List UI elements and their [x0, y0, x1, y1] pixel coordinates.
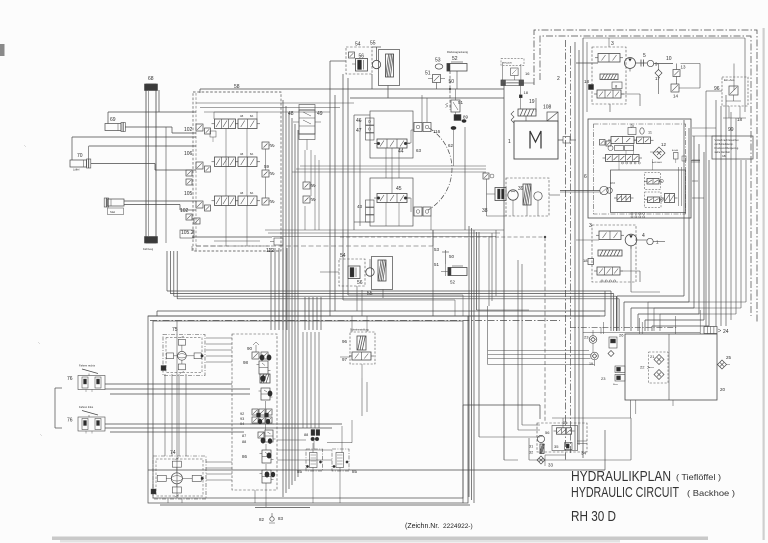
- svg-text:Löffel: Löffel: [73, 168, 80, 172]
- svg-text:38: 38: [482, 208, 488, 214]
- label 58: [234, 84, 240, 90]
- svg-text:51: 51: [458, 100, 464, 105]
- label 105: [184, 191, 193, 197]
- wire: [583, 331, 700, 333]
- svg-text:59: 59: [264, 164, 270, 169]
- label 4: [642, 233, 645, 239]
- cooler spool 35: [554, 428, 575, 434]
- svg-text:47: 47: [356, 128, 362, 134]
- label 50: [449, 79, 455, 85]
- labels 87-88: [242, 434, 246, 444]
- label 52b: [450, 280, 456, 285]
- suction 23 group: [584, 330, 597, 343]
- label M: [530, 131, 541, 149]
- label Fahren-l: [79, 405, 94, 409]
- label 45: [396, 186, 402, 192]
- label 38: [482, 208, 488, 214]
- svg-text:51: 51: [434, 262, 440, 267]
- wire: [343, 74, 348, 300]
- relief 59d: [303, 182, 316, 203]
- wire: [593, 342, 611, 366]
- joystick 74: [151, 456, 206, 499]
- label 96c: [342, 339, 348, 344]
- wire: [212, 349, 232, 351]
- svg-text:24: 24: [723, 329, 729, 335]
- svg-text:89: 89: [463, 115, 469, 120]
- label 102b: [180, 208, 200, 224]
- wire corner net: [489, 230, 496, 306]
- label 49: [317, 111, 323, 117]
- wire: [160, 504, 470, 506]
- wire: [576, 63, 700, 94]
- label 10: [666, 56, 672, 62]
- label 52: [452, 56, 458, 62]
- paper shadow right edge: [763, 28, 765, 540]
- label 29: [720, 387, 726, 392]
- title line 2: [571, 484, 735, 501]
- valve section 1 spools: [212, 119, 261, 129]
- svg-text:102: 102: [180, 208, 189, 214]
- svg-text:(Zeichn.Nr.: (Zeichn.Nr.: [405, 523, 439, 530]
- wire: [314, 420, 352, 449]
- valve 14: [671, 84, 679, 99]
- wire: [503, 83, 505, 460]
- svg-text:56: 56: [357, 280, 363, 286]
- note box 99: [712, 136, 753, 159]
- svg-text:82: 82: [259, 517, 265, 522]
- frame dash-dot outer: [534, 30, 757, 322]
- suction 19 group: [589, 352, 598, 366]
- svg-text:11: 11: [648, 131, 652, 135]
- wire: [165, 127, 167, 243]
- svg-text:93: 93: [240, 417, 244, 421]
- wire fan right: [684, 120, 709, 326]
- svg-text:112: 112: [266, 248, 274, 254]
- label unterwagen: [143, 248, 154, 251]
- valve 86: [242, 450, 274, 463]
- wire: [487, 179, 539, 216]
- label 1: [508, 139, 511, 145]
- wire: [105, 424, 342, 432]
- joystick 75: [161, 335, 205, 376]
- valve section 2 extra: [186, 170, 192, 185]
- svg-text:BA: BA: [250, 153, 254, 156]
- label 33: [548, 463, 554, 468]
- wire: [716, 95, 726, 326]
- label 44: [398, 149, 404, 155]
- title line 3: [571, 509, 616, 525]
- svg-text:83: 83: [278, 516, 284, 521]
- wire: [148, 311, 605, 316]
- wire: [343, 295, 463, 300]
- wire: [214, 112, 258, 119]
- gauge 53 ellipse: [435, 64, 443, 69]
- pump group 3 dashed box: [592, 47, 626, 104]
- stiel label box: [108, 208, 124, 215]
- block6 right valve: [662, 194, 678, 203]
- pump 3 circle: [625, 58, 636, 72]
- switch bar 16: [501, 80, 524, 86]
- svg-text:31: 31: [529, 445, 533, 449]
- wire: [463, 405, 540, 503]
- title line 1: [571, 468, 721, 485]
- wire horizontal bundle mid: [292, 166, 486, 172]
- pressure switch 16 dashed box: [501, 59, 524, 66]
- svg-text:106: 106: [184, 151, 193, 157]
- diamond 33: [537, 456, 545, 464]
- label 82: [259, 517, 265, 522]
- cooler dashed box: [537, 423, 587, 452]
- svg-text:AB: AB: [240, 115, 244, 118]
- label 18b: [737, 117, 743, 122]
- wire dash-dot: [150, 320, 560, 322]
- block6 spool rowA: [608, 137, 654, 144]
- pump2 hatch: [598, 250, 622, 256]
- label Fahren-r: [79, 364, 96, 368]
- label 6: [584, 174, 587, 180]
- wire: [706, 91, 746, 118]
- valve 85b inner: [333, 426, 348, 483]
- filter 22 diamond: [640, 365, 664, 380]
- cylinder 68: [145, 84, 158, 243]
- wire: [422, 95, 427, 123]
- svg-text:14: 14: [673, 94, 679, 99]
- valve 13: [673, 65, 686, 77]
- svg-text:98: 98: [243, 360, 249, 365]
- wire: [313, 483, 340, 503]
- svg-text:3: 3: [611, 41, 614, 47]
- svg-text:58: 58: [234, 84, 240, 90]
- label 70: [77, 153, 83, 159]
- label 97: [342, 357, 348, 362]
- block6 pilot valve b dashed: [645, 192, 664, 208]
- label 105-2: [180, 230, 194, 238]
- wire rungs 75: [206, 338, 232, 362]
- tank inner line: [668, 334, 670, 400]
- gear pump 38 block: [495, 188, 506, 201]
- valve 8 box: [612, 82, 622, 89]
- svg-text:16: 16: [525, 71, 530, 76]
- wire: [407, 198, 431, 230]
- svg-text:Fahren rechts: Fahren rechts: [79, 364, 96, 368]
- wire: [199, 89, 201, 93]
- valve block 58 dashed box: [193, 92, 281, 251]
- label sect3: [240, 192, 254, 195]
- block6 left items: [600, 140, 634, 151]
- valve row 91-94: [250, 409, 274, 424]
- control block 6 outer: [588, 119, 691, 218]
- pump small circle: [534, 192, 542, 200]
- rotary link 116 bottom: [414, 207, 431, 216]
- svg-text:AB: AB: [240, 153, 244, 156]
- svg-text:22: 22: [640, 365, 645, 370]
- valve 85a inner: [306, 443, 321, 483]
- label 63: [416, 148, 422, 153]
- svg-text:32: 32: [529, 451, 533, 455]
- valve u2: [260, 470, 274, 483]
- gauge 7 circle: [647, 238, 659, 244]
- valve 90 pair: [252, 342, 268, 359]
- svg-text:116: 116: [433, 129, 441, 134]
- pilot block dashed box: [232, 334, 277, 490]
- wire: [167, 291, 619, 299]
- wire dashdot tank: [570, 327, 678, 329]
- valve 85a dashed box: [306, 449, 323, 471]
- wire: [359, 120, 361, 226]
- wire: [325, 435, 331, 437]
- svg-text:Fahrzeug: Fahrzeug: [143, 248, 154, 251]
- svg-text:85: 85: [297, 469, 303, 474]
- label 32: [529, 451, 533, 455]
- svg-text:18: 18: [583, 258, 588, 263]
- svg-text:36: 36: [563, 421, 567, 425]
- valve 18 small: [584, 79, 594, 90]
- wire: [608, 38, 610, 47]
- label sect2: [240, 153, 254, 156]
- accumulator 52b: [448, 266, 467, 276]
- svg-text:1: 1: [508, 139, 511, 145]
- valve 54 small: [349, 52, 355, 58]
- wire: [192, 236, 272, 238]
- wire: [648, 302, 660, 331]
- filter 38 hatch: [523, 184, 531, 205]
- label 56c: [545, 430, 550, 435]
- svg-text:A1-A4: A1-A4: [672, 149, 679, 152]
- label 55: [370, 41, 376, 47]
- margin mark: [24, 145, 42, 436]
- svg-text:75: 75: [172, 327, 178, 333]
- drawing number: [405, 523, 473, 530]
- valve 18c: [583, 258, 594, 265]
- pump 3 hatch: [600, 74, 618, 80]
- valve section 2 spools: [212, 157, 261, 167]
- filter 21 diamond: [650, 354, 664, 365]
- cylinder 70: [70, 159, 91, 168]
- wire: [487, 306, 489, 365]
- control block 6 inner dashdot: [594, 124, 686, 214]
- svg-text:87: 87: [242, 434, 246, 438]
- valve u1: [259, 388, 273, 400]
- wire: [320, 272, 383, 298]
- wire horizontal bundle low: [265, 230, 504, 237]
- label 98: [243, 360, 249, 365]
- svg-text:102: 102: [184, 127, 193, 133]
- label 74: [170, 450, 176, 456]
- wire: [176, 321, 178, 498]
- wire bundle 5: [469, 226, 479, 503]
- svg-text:105.2: 105.2: [181, 230, 194, 236]
- svg-text:Ein-Aus: Ein-Aus: [724, 78, 735, 82]
- wire: [432, 230, 434, 246]
- wire: [72, 137, 196, 160]
- valve 16: [511, 68, 531, 76]
- svg-text:Rexr.: Rexr.: [613, 383, 618, 386]
- label 36: [563, 421, 567, 425]
- wire: [631, 400, 673, 418]
- tank filter dashed box: [649, 352, 669, 383]
- pilot items: [483, 173, 494, 179]
- label 51c: [434, 262, 440, 267]
- wire bundle: [305, 297, 321, 330]
- svg-text:69: 69: [110, 117, 116, 123]
- svg-text:88: 88: [242, 440, 246, 444]
- svg-text:21: 21: [650, 354, 655, 359]
- wire: [503, 62, 521, 109]
- wire: [518, 260, 522, 430]
- label 90: [247, 346, 253, 351]
- wire: [464, 127, 466, 230]
- svg-text:20: 20: [720, 387, 726, 392]
- svg-text:50: 50: [449, 79, 455, 85]
- wire: [437, 71, 458, 110]
- svg-text:AB: AB: [240, 192, 244, 195]
- wire: [357, 286, 362, 316]
- valve 51: [428, 75, 445, 83]
- breather 24 box: [704, 327, 717, 334]
- wire: [88, 146, 90, 159]
- wire: [432, 230, 434, 316]
- label 47: [356, 128, 362, 134]
- label 76a: [67, 376, 73, 382]
- svg-text:17: 17: [655, 76, 661, 81]
- block6 pilot valve a dashed: [644, 173, 663, 190]
- wire: [340, 357, 362, 378]
- svg-text:54: 54: [355, 42, 361, 48]
- valve section 3 spools: [212, 196, 261, 206]
- label 53b: [434, 247, 440, 252]
- wire fan right horiz: [617, 296, 709, 326]
- rotary link 116 top: [414, 123, 441, 135]
- svg-text:50: 50: [449, 254, 455, 259]
- label 99: [728, 127, 734, 133]
- filter 25 diamond: [718, 360, 731, 369]
- svg-text:RH 30 D: RH 30 D: [571, 509, 616, 525]
- wire: [734, 38, 745, 112]
- pedal 76a: [78, 369, 105, 392]
- valve section 1 pilot: [196, 124, 211, 134]
- pump 38 dashed box: [506, 178, 549, 216]
- svg-text:97: 97: [342, 357, 348, 362]
- svg-text:53: 53: [435, 58, 441, 64]
- stack valve 43: [357, 200, 374, 222]
- svg-text:55: 55: [367, 291, 373, 297]
- svg-text:23: 23: [601, 376, 606, 381]
- wire: [611, 291, 619, 331]
- svg-text:74: 74: [170, 450, 176, 456]
- wire: [125, 127, 196, 133]
- pump2 dots: [601, 280, 616, 282]
- label 24: [718, 329, 729, 335]
- suction 27 group: [601, 366, 625, 386]
- drain 83 symbol: [269, 513, 275, 523]
- svg-text:HYDRAULIKPLAN: HYDRAULIKPLAN: [571, 468, 671, 485]
- svg-text:12: 12: [661, 142, 667, 147]
- wire: [350, 86, 504, 99]
- block6 main spool: [603, 155, 643, 165]
- solenoid 18d: [519, 95, 522, 98]
- svg-text:6: 6: [584, 174, 587, 180]
- accumulator 55 circle: [372, 47, 381, 69]
- svg-text:43: 43: [357, 204, 363, 209]
- wire: [526, 98, 536, 121]
- svg-text:18: 18: [584, 79, 590, 84]
- wire bundle: [283, 100, 298, 497]
- label 2: [557, 76, 560, 82]
- frame dash-dot pump side: [566, 40, 571, 460]
- coupling 108 box: [547, 112, 558, 121]
- label 19: [529, 99, 535, 105]
- label 96: [714, 86, 720, 92]
- labels 91-94: [240, 412, 244, 426]
- svg-text:Rückmagnetventg: Rückmagnetventg: [447, 50, 468, 54]
- wire: [226, 129, 266, 199]
- label Druckspeicherung: [447, 50, 468, 54]
- label 102a: [184, 127, 193, 133]
- wire: [741, 160, 746, 308]
- wire box B: [370, 178, 413, 226]
- pump 31 circle: [537, 435, 544, 442]
- wire: [352, 316, 367, 332]
- pump2 lower spool: [594, 267, 623, 275]
- svg-text:( Backhoe ): ( Backhoe ): [687, 488, 735, 498]
- block6 pump circle: [600, 186, 613, 194]
- svg-text:53: 53: [434, 247, 440, 252]
- label 75: [172, 327, 178, 333]
- wire: [293, 122, 321, 150]
- valve 48-49 caps: [299, 105, 315, 140]
- node: [449, 88, 451, 90]
- valve E1: [672, 149, 679, 163]
- svg-text:51: 51: [425, 71, 431, 77]
- svg-text:86: 86: [242, 454, 248, 459]
- svg-text:34: 34: [581, 451, 587, 456]
- valve 56 solid block: [352, 59, 368, 72]
- svg-text:94: 94: [240, 422, 244, 426]
- svg-text:70: 70: [77, 153, 83, 159]
- svg-text:Druck und Mengenreg.: Druck und Mengenreg.: [715, 147, 740, 150]
- wire dash: [196, 245, 433, 247]
- wire: [619, 144, 653, 171]
- wire: [305, 150, 319, 230]
- paper shadow bottom edge: [52, 537, 708, 543]
- wire: [586, 42, 588, 112]
- pump2 circle: [625, 234, 637, 249]
- wire: [575, 38, 583, 458]
- block6 top items: [628, 125, 652, 135]
- valve 44 spool: [374, 139, 410, 148]
- cooler inner box: [552, 426, 578, 451]
- wire: [354, 115, 370, 230]
- svg-text:33: 33: [548, 463, 554, 468]
- svg-text:BA: BA: [250, 192, 254, 195]
- wire: [124, 200, 196, 202]
- wire frame: [148, 316, 468, 503]
- valve 98 item: [257, 361, 271, 374]
- label 25: [726, 355, 732, 360]
- valve section 1 tiny: [210, 131, 216, 142]
- label 46: [356, 118, 362, 124]
- svg-text:( Tieflöffel ): ( Tieflöffel ): [676, 472, 721, 482]
- filter 57b box: [372, 257, 393, 290]
- wire: [277, 440, 332, 460]
- wire: [504, 459, 518, 461]
- paper mark left edge: [0, 44, 5, 56]
- cooler valve 36: [565, 442, 572, 449]
- heater 19: [511, 109, 536, 123]
- label 55b: [367, 291, 373, 297]
- svg-text:68: 68: [148, 76, 154, 82]
- block6 tiny row: [652, 156, 686, 164]
